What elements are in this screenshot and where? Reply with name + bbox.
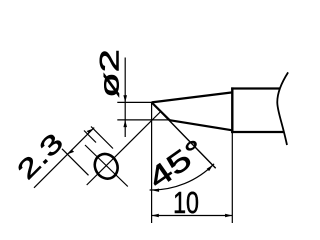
- break curve (S-shaped cut symbol): [277, 72, 288, 145]
- bevel face edge (thick): [152, 102, 170, 120]
- 2.3 extension line upper: [91, 127, 113, 149]
- dia-2 lower extension line: [117, 119, 169, 121]
- 2.3 arrow lower-left: [68, 149, 75, 154]
- ellipse crosshair line: [85, 145, 128, 187]
- face ellipse (true view of bevel face): [90, 150, 122, 183]
- svg-text:10: 10: [173, 185, 199, 220]
- 2.3 arrow upper-right: [87, 129, 94, 134]
- tip cone bottom edge: [170, 120, 233, 130]
- 10 dimension line: [152, 215, 233, 217]
- 2.3 extension line lower: [62, 149, 89, 176]
- dia-2 arrow up: [123, 120, 127, 127]
- 10 arrow left: [152, 214, 159, 218]
- 10-dim right extension line: [231, 133, 233, 223]
- bevel face extension line (thin, to 45 deg arc): [152, 102, 216, 168]
- 2.3 extension stub: [84, 131, 96, 143]
- svg-text:2.3: 2.3: [11, 128, 68, 185]
- shank top edge: [231, 87, 280, 89]
- 45 deg arc: [150, 164, 214, 190]
- 2.3 dimension line: [34, 128, 94, 188]
- arc arrow lower-left: [152, 189, 160, 192]
- svg-text:ø2: ø2: [95, 49, 125, 98]
- shoulder vertical line: [231, 87, 233, 133]
- dia-2 upper extension line: [117, 101, 151, 103]
- dia-2 dimension line vertical: [124, 58, 126, 138]
- face centerline (45 deg, to ellipse): [87, 112, 161, 185]
- dia-2 arrow down: [123, 95, 127, 102]
- 10 arrow right: [225, 214, 232, 218]
- 10-dim left extension line (vertical from apex): [151, 102, 153, 223]
- shank bottom edge: [231, 131, 284, 133]
- arc arrow upper-right: [207, 165, 214, 172]
- tip cone top edge: [152, 92, 233, 102]
